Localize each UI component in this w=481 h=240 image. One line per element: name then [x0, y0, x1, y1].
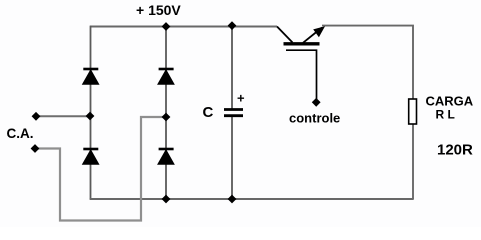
wire top +150V rail [90, 26, 277, 28]
emitter arrowhead [313, 26, 325, 37]
node: C.A. lower input terminal [31, 144, 40, 153]
node: junction dot top of D3 column [162, 22, 171, 31]
node: junction dot right bridge midpoint [162, 113, 171, 122]
svg-text:controle: controle [289, 111, 340, 126]
wire load bottom [412, 123, 414, 199]
wire bottom rail [90, 198, 414, 200]
transistor Q1 pass transistor [277, 26, 325, 99]
node: junction dot top of capacitor column [228, 21, 237, 30]
wire right bridge column [165, 27, 167, 200]
svg-text:C.A.: C.A. [7, 126, 34, 141]
diode D4 lower-right [158, 149, 174, 164]
diode D1 upper-left [83, 69, 99, 84]
svg-text:CARGA: CARGA [426, 94, 474, 109]
wire capacitor column lower [231, 117, 233, 200]
node: junction dot left bridge midpoint [86, 112, 95, 121]
diode D3 upper-right [158, 69, 174, 84]
svg-text:120R: 120R [437, 142, 473, 159]
wire C.A. lower terminal loop to right bridge midpoint [35, 117, 166, 221]
collector lead [277, 27, 293, 43]
wire emitter to load top [322, 26, 413, 100]
svg-text:+: + [237, 91, 245, 106]
resistor RL (CARGA) [409, 99, 417, 124]
node: junction dot bottom of capacitor column [228, 195, 237, 204]
wire C.A. upper terminal to left bridge midpoint [36, 115, 90, 117]
emitter lead [303, 28, 322, 43]
diode D2 lower-left [83, 149, 99, 164]
base connection line [286, 50, 317, 99]
svg-text:+ 150V: + 150V [136, 2, 181, 18]
node: junction dot bottom of D4 column [162, 195, 171, 204]
capacitor C plates [224, 110, 243, 116]
svg-text:C: C [203, 104, 214, 121]
wire left bridge column [90, 26, 92, 199]
base bar [284, 42, 320, 45]
node: controle input terminal [312, 98, 321, 107]
wire capacitor column upper [231, 27, 233, 109]
svg-text:R L: R L [436, 108, 455, 122]
node: C.A. upper input terminal [32, 112, 41, 121]
